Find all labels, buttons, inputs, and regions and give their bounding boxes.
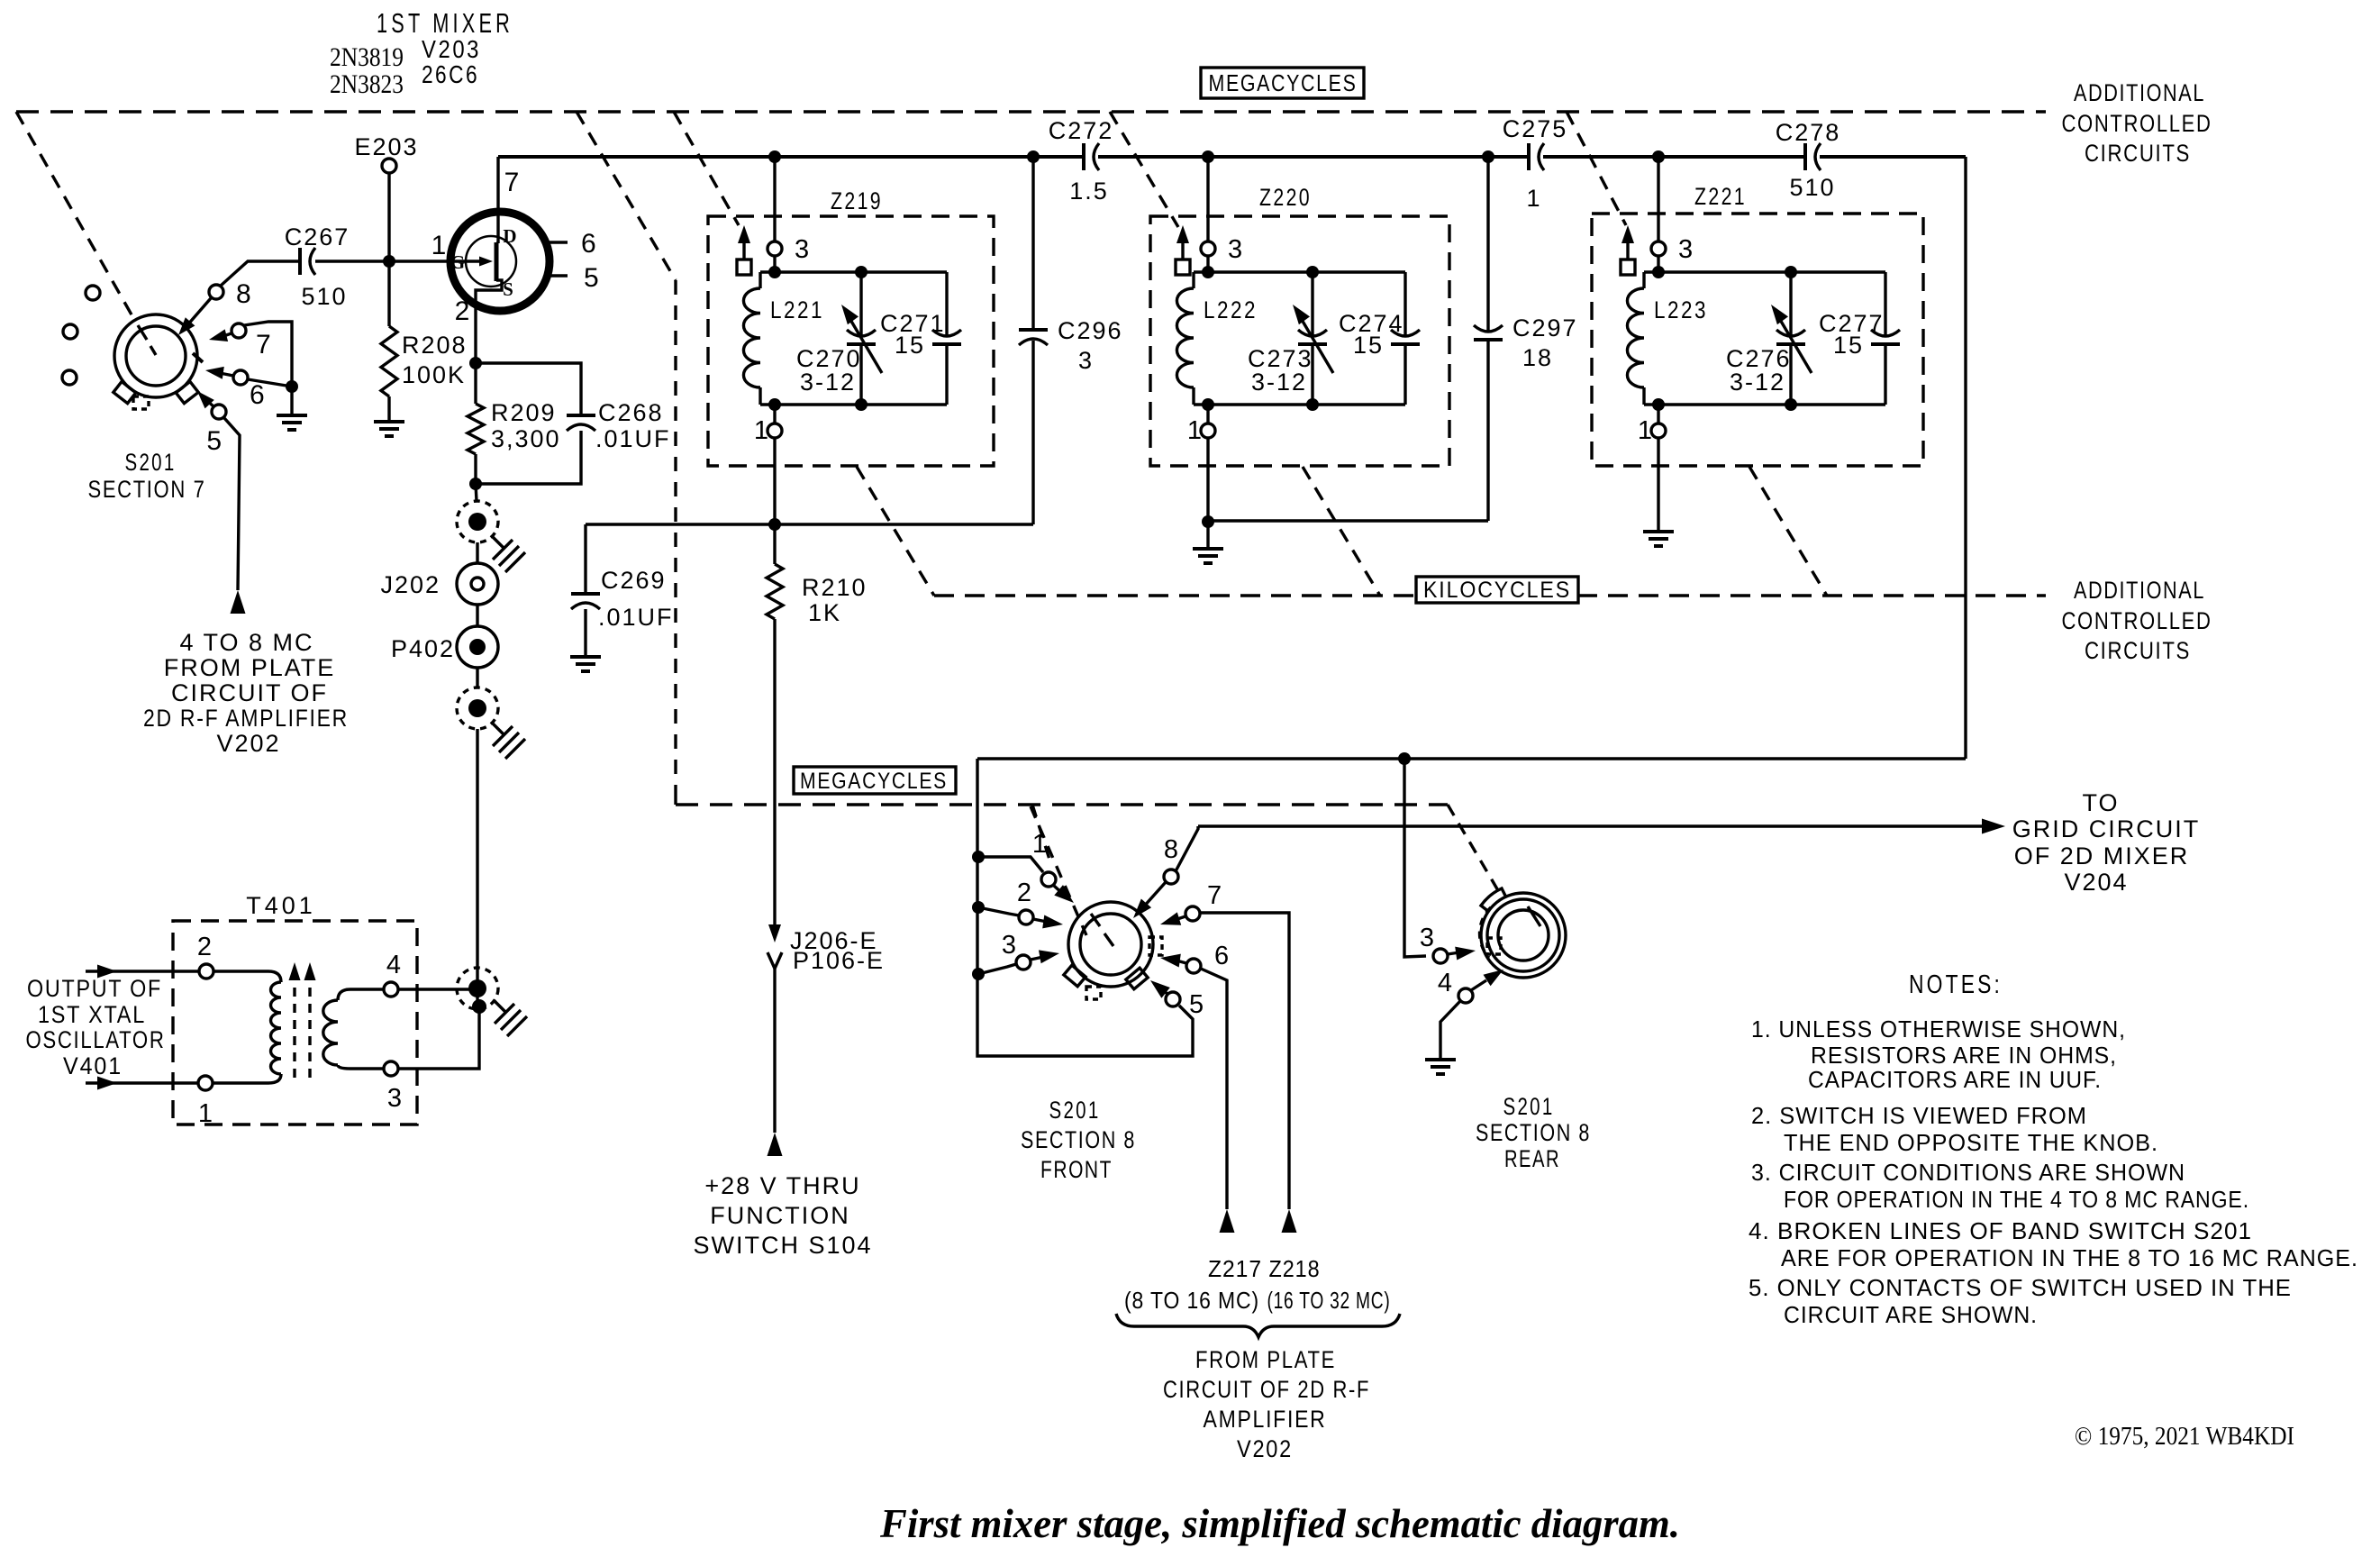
wire E203 to gate node	[387, 173, 390, 261]
svg-text:5: 5	[1189, 990, 1204, 1019]
capacitor C274	[1339, 272, 1420, 405]
label MEGACYCLES (top box)	[1201, 68, 1364, 98]
unused contact (middle)	[63, 324, 77, 339]
svg-text:1K: 1K	[808, 599, 841, 626]
wire Z220 input	[1206, 157, 1209, 241]
svg-text:First mixer stage, simplified: First mixer stage, simplified schematic …	[879, 1500, 1680, 1546]
capacitor C276 (trimmer)	[1726, 272, 1812, 405]
wire contact 7 to Z218	[1200, 913, 1289, 1209]
svg-text:CONTROLLED: CONTROLLED	[2062, 110, 2212, 137]
junction trimmer bottom	[1785, 398, 1797, 411]
node ADDITIONAL CONTROLLED CIRCUITS (top)	[2062, 79, 2212, 167]
node TO GRID CIRCUIT OF 2D MIXER V204	[2012, 789, 2201, 896]
arrow contact 5 to rotor	[197, 391, 214, 408]
svg-text:V202: V202	[216, 730, 280, 757]
pin 3 of Z221	[1651, 235, 1693, 264]
svg-text:3-12: 3-12	[1251, 369, 1307, 396]
svg-text:15: 15	[1833, 332, 1864, 359]
svg-text:4. BROKEN LINES OF BAND SWITCH: 4. BROKEN LINES OF BAND SWITCH S201	[1749, 1217, 2252, 1244]
tube designator V203	[422, 35, 481, 63]
wire Z219 pin1 to rail	[773, 438, 776, 524]
svg-text:3-12: 3-12	[800, 369, 856, 396]
wire dashed 8-16MC position	[1031, 806, 1086, 935]
svg-text:FRONT: FRONT	[1040, 1156, 1113, 1183]
junction bus at Z221	[1652, 150, 1665, 163]
svg-text:1: 1	[754, 416, 768, 445]
svg-text:Z218: Z218	[1269, 1255, 1321, 1282]
feedthrough capacitor below P402	[457, 687, 525, 759]
caption	[879, 1500, 1680, 1546]
svg-text:ADDITIONAL: ADDITIONAL	[2074, 79, 2205, 106]
wire gate node to R208	[387, 261, 390, 326]
wire pin3 to tank	[773, 256, 776, 272]
wire to pin 1	[1657, 405, 1659, 423]
title 1ST MIXER	[377, 7, 513, 39]
junction trimmer top	[1785, 266, 1797, 278]
label S201 SECTION 7	[88, 449, 206, 503]
junction R209 top	[469, 357, 482, 369]
contact 1 of S201-8F	[978, 830, 1056, 887]
capacitor C270 (trimmer)	[796, 272, 882, 405]
note 5	[1749, 1274, 2292, 1328]
svg-text:T401: T401	[246, 892, 316, 919]
pin 3 of Z219	[768, 235, 809, 264]
svg-text:© 1975, 2021 WB4KDI: © 1975, 2021 WB4KDI	[2075, 1423, 2294, 1451]
svg-text:2: 2	[1017, 879, 1031, 907]
svg-text:NOTES:: NOTES:	[1909, 970, 2003, 999]
label KILOCYCLES box	[1416, 577, 1578, 603]
wire Z220 pin1 to ground	[1206, 438, 1209, 522]
junction contact 1 feed	[972, 851, 985, 863]
capacitor C278	[1776, 119, 1841, 201]
svg-text:1: 1	[1526, 185, 1541, 212]
arrow contact 3 to rotor	[1448, 947, 1476, 961]
svg-text:C268: C268	[598, 399, 664, 426]
svg-text:.01UF: .01UF	[598, 604, 674, 631]
svg-text:2: 2	[455, 296, 470, 326]
svg-text:CIRCUIT ARE SHOWN.: CIRCUIT ARE SHOWN.	[1784, 1301, 2038, 1328]
wire to pin 1	[1206, 405, 1209, 423]
svg-text:C267: C267	[285, 223, 350, 250]
wire dashed MEGACYCLES line (lower)	[676, 793, 1448, 805]
svg-text:3,300: 3,300	[491, 425, 561, 452]
label Z217 Z218	[1208, 1255, 1321, 1282]
svg-text:1: 1	[198, 1099, 213, 1128]
pin 1 of Z221	[1638, 416, 1666, 445]
wire dashed diagonal from Z219	[857, 467, 934, 596]
svg-text:P402: P402	[391, 635, 455, 662]
svg-text:CAPACITORS ARE IN UUF.: CAPACITORS ARE IN UUF.	[1808, 1066, 2102, 1093]
junction Z220 ground rail	[1202, 515, 1214, 528]
svg-text:+28 V THRU: +28 V THRU	[704, 1172, 860, 1199]
wire P402 to feedthrough	[476, 668, 478, 687]
wire gate node to FET gate	[389, 259, 468, 262]
junction trimmer bottom	[1306, 398, 1319, 411]
transistor type 2N3819	[330, 42, 404, 72]
wire contact 4 to ground	[1440, 1001, 1460, 1060]
svg-text:S201: S201	[125, 449, 177, 476]
ground below Z221	[1643, 532, 1674, 546]
module Z221 (tuned circuit)	[1592, 183, 1923, 466]
svg-text:SECTION 8: SECTION 8	[1021, 1126, 1136, 1153]
svg-text:V203: V203	[422, 35, 481, 63]
svg-text:1: 1	[431, 231, 447, 260]
capacitor C273 (trimmer)	[1248, 272, 1333, 405]
svg-text:KILOCYCLES: KILOCYCLES	[1423, 578, 1571, 603]
svg-text:FROM PLATE: FROM PLATE	[164, 654, 336, 681]
svg-text:Z220: Z220	[1259, 184, 1312, 211]
wire tank bottom rail	[1194, 403, 1405, 405]
ground below C269	[570, 657, 601, 671]
wire S201-7 contact 8 to C267	[221, 261, 300, 286]
svg-text:1: 1	[1032, 830, 1047, 859]
node Z217 input arrow	[1220, 1209, 1235, 1233]
svg-text:L221: L221	[770, 296, 824, 323]
feedthrough capacitor at T401	[457, 968, 527, 1036]
wire dashed diagonal to Z220 wiper	[1110, 112, 1178, 227]
arrow contact 8 to rotor	[178, 298, 211, 335]
pin 4 of T401	[384, 951, 401, 997]
core arrows of T401	[289, 962, 316, 1078]
svg-text:7: 7	[1207, 881, 1222, 910]
junction bus at Z219	[768, 150, 781, 163]
capacitor C296	[1019, 157, 1123, 524]
contact 7 of S201-8F	[1185, 881, 1222, 921]
svg-text:3: 3	[387, 1084, 402, 1113]
wire FET source to R209 node	[474, 313, 477, 363]
wiper position arrow of Z219	[737, 225, 751, 275]
resistor R209	[468, 363, 561, 484]
wire C267 to gate node	[315, 259, 389, 262]
junction tank top	[1652, 266, 1665, 278]
svg-text:4: 4	[386, 951, 401, 979]
svg-text:REAR: REAR	[1504, 1145, 1560, 1172]
svg-text:1ST XTAL: 1ST XTAL	[38, 1001, 146, 1028]
contact 2 of S201-8F	[978, 879, 1033, 924]
arrow contact 7 to rotor	[209, 329, 232, 341]
wire pin3 to tank	[1657, 256, 1659, 272]
wire contact 5 down to 4-8MC arrow	[224, 418, 240, 590]
svg-text:MEGACYCLES: MEGACYCLES	[1209, 69, 1358, 96]
wire tank top rail	[1194, 270, 1405, 273]
wire Z219 input	[773, 157, 776, 241]
svg-text:C278: C278	[1776, 119, 1841, 146]
svg-text:(16 TO 32 MC): (16 TO 32 MC)	[1267, 1287, 1391, 1314]
svg-text:8: 8	[1164, 835, 1178, 864]
svg-text:L222: L222	[1204, 296, 1258, 323]
wire pin3 to node	[398, 1006, 479, 1069]
unused contact (lower)	[62, 370, 77, 385]
brace under Z217 Z218	[1116, 1314, 1400, 1337]
primary winding of T401	[213, 971, 281, 1083]
svg-text:ARE FOR OPERATION IN THE 8 TO: ARE FOR OPERATION IN THE 8 TO 16 MC RANG…	[1781, 1244, 2358, 1271]
svg-text:15: 15	[1353, 332, 1384, 359]
svg-text:1.5: 1.5	[1069, 178, 1109, 205]
svg-text:E203: E203	[354, 133, 418, 160]
inductor L221	[743, 272, 824, 405]
label 8TO16 16TO32	[1124, 1287, 1391, 1314]
svg-text:ADDITIONAL: ADDITIONAL	[2074, 577, 2205, 604]
wire feedthrough to T401 node	[476, 729, 478, 1006]
wire contact 6 to ground node	[248, 379, 292, 387]
svg-text:4 TO 8 MC: 4 TO 8 MC	[179, 629, 313, 656]
switch S201 section 8 front rotor	[1064, 902, 1162, 999]
connector P402	[391, 626, 498, 668]
svg-text:(8 TO 16 MC): (8 TO 16 MC)	[1124, 1287, 1259, 1314]
junction trimmer top	[855, 266, 868, 278]
wire bus drop to switch rail	[977, 757, 1966, 760]
label NOTES	[1909, 970, 2003, 999]
node +28V THRU FUNCTION SWITCH S104	[768, 1133, 783, 1156]
contact 4 of S201-8R	[1438, 969, 1473, 1003]
svg-text:OF 2D MIXER: OF 2D MIXER	[2014, 842, 2190, 870]
wire oscillator input bottom	[86, 1077, 198, 1090]
svg-text:3: 3	[1420, 924, 1434, 952]
svg-text:GRID CIRCUIT: GRID CIRCUIT	[2012, 815, 2201, 842]
svg-text:5. ONLY CONTACTS OF SWITCH USE: 5. ONLY CONTACTS OF SWITCH USED IN THE	[1749, 1274, 2292, 1301]
svg-text:510: 510	[1789, 174, 1835, 201]
svg-text:Z217: Z217	[1208, 1255, 1262, 1282]
wire dashed diagonal to vertical branch	[577, 112, 676, 793]
capacitor C271	[880, 272, 961, 405]
junction tank bottom	[1202, 398, 1214, 411]
module Z220 (tuned circuit)	[1150, 184, 1449, 466]
svg-text:510: 510	[301, 283, 347, 310]
svg-text:C272: C272	[1049, 117, 1114, 144]
connector J206-E	[768, 924, 878, 954]
terminal E203	[354, 133, 418, 173]
capacitor C297	[1474, 157, 1578, 521]
svg-text:D: D	[503, 225, 516, 247]
svg-text:1. UNLESS OTHERWISE SHOWN,: 1. UNLESS OTHERWISE SHOWN,	[1751, 1015, 2126, 1043]
arrow contact 6 to rotor	[1160, 954, 1186, 968]
wire contact 8 to grid line	[1176, 826, 1198, 871]
wire J202 to P402	[476, 605, 478, 626]
wire main plate bus	[498, 157, 1966, 759]
svg-text:3: 3	[1678, 235, 1693, 264]
ground below S201-8R	[1425, 1060, 1456, 1074]
label MEGACYCLES (lower box)	[794, 767, 956, 794]
wire dashed KILOCYCLES control line	[934, 594, 2046, 596]
svg-text:TO: TO	[2082, 789, 2119, 816]
switch S201 section 7 rotor	[114, 314, 203, 409]
junction tank top	[1202, 266, 1214, 278]
arrow contact 6 to rotor	[205, 367, 233, 379]
wire R209 bottom to feedthrough	[476, 484, 477, 501]
tube type 26C6	[422, 60, 479, 88]
svg-text:C269: C269	[601, 567, 667, 594]
svg-text:3: 3	[1002, 931, 1016, 960]
arrow contact 8 to rotor	[1133, 882, 1166, 918]
svg-text:2N3823: 2N3823	[330, 69, 404, 99]
transformer T401 module	[173, 892, 417, 1124]
note 4	[1749, 1217, 2358, 1271]
svg-text:6: 6	[1214, 942, 1229, 970]
wire Z220 junction to ground	[1206, 522, 1209, 549]
contact 5 of S201-8F	[1166, 990, 1204, 1019]
arrow contact 1 to rotor	[1054, 885, 1074, 903]
svg-text:RESISTORS ARE IN OHMS,: RESISTORS ARE IN OHMS,	[1811, 1042, 2117, 1069]
svg-text:SWITCH S104: SWITCH S104	[693, 1232, 872, 1259]
resistor R208	[381, 326, 468, 396]
svg-text:MEGACYCLES: MEGACYCLES	[800, 769, 948, 794]
svg-text:Z221: Z221	[1694, 183, 1747, 210]
svg-text:AMPLIFIER: AMPLIFIER	[1204, 1406, 1327, 1433]
junction bus at C296	[1027, 150, 1040, 163]
wire tank top rail	[1644, 270, 1885, 273]
wire R210 to J206-E	[773, 619, 776, 927]
junction R209 bottom	[469, 478, 482, 490]
wire oscillator input top	[86, 965, 199, 979]
junction trimmer top	[1306, 266, 1319, 278]
inductor L223	[1627, 272, 1708, 405]
svg-text:R209: R209	[491, 399, 557, 426]
svg-text:OUTPUT OF: OUTPUT OF	[27, 975, 162, 1002]
svg-text:.01UF: .01UF	[595, 425, 671, 452]
svg-text:CIRCUIT OF 2D R-F: CIRCUIT OF 2D R-F	[1163, 1376, 1370, 1403]
svg-text:G: G	[450, 251, 465, 273]
capacitor C275	[1503, 115, 1568, 212]
svg-text:FUNCTION: FUNCTION	[710, 1202, 849, 1229]
wire tank top rail	[760, 270, 947, 273]
wire P106-E to +28V arrow	[773, 969, 776, 1133]
svg-text:1ST MIXER: 1ST MIXER	[377, 7, 513, 39]
wire bypass rail	[586, 523, 1033, 525]
junction contact 3 feed	[972, 968, 985, 980]
node Z218 input arrow	[1282, 1209, 1297, 1233]
note 3	[1751, 1159, 2249, 1213]
svg-text:3-12: 3-12	[1730, 369, 1785, 396]
resistor R210	[767, 524, 868, 626]
junction at rear switch drop	[1398, 752, 1411, 765]
pin 2 of T401	[197, 933, 213, 979]
contact 6 of S201-8F	[1186, 942, 1229, 973]
connector P106-E	[768, 947, 885, 974]
wire tank bottom rail	[1644, 403, 1885, 405]
wire rear switch drop	[1404, 759, 1426, 957]
svg-text:SECTION 7: SECTION 7	[88, 476, 206, 503]
svg-text:SECTION 8: SECTION 8	[1476, 1119, 1591, 1146]
wire dashed diagonal to S201 section 7 rotor	[16, 112, 132, 316]
svg-text:FROM PLATE: FROM PLATE	[1195, 1346, 1336, 1373]
capacitor C277	[1819, 272, 1900, 405]
svg-text:S201: S201	[1049, 1097, 1101, 1124]
label copyright	[2075, 1423, 2294, 1451]
arrow contact 5 to rotor	[1150, 980, 1170, 998]
secondary winding of T401	[323, 989, 398, 1069]
label S201 SECTION 8 REAR	[1476, 1093, 1591, 1172]
wire C297 to Z220 ground rail	[1208, 519, 1488, 522]
junction rail at R210	[768, 518, 781, 531]
contact 8 of S201-8F	[1164, 835, 1178, 884]
feedthrough capacitor above J202	[457, 501, 525, 572]
arrow contact 7 to rotor	[1160, 912, 1185, 924]
wire C268 bottom to R209 bottom	[476, 431, 581, 484]
svg-text:3: 3	[795, 235, 809, 264]
svg-text:3. CIRCUIT CONDITIONS ARE SHOW: 3. CIRCUIT CONDITIONS ARE SHOWN	[1751, 1159, 2185, 1186]
wire pin3 to tank	[1206, 256, 1209, 272]
wire to grid of 2nd mixer	[1198, 819, 2005, 834]
capacitor C268	[567, 399, 671, 452]
switch S201 section 8 rear rotor	[1480, 888, 1566, 978]
ground below R208	[374, 422, 404, 436]
wire S201-8 front frame	[977, 759, 1193, 1056]
capacitor C272	[1049, 117, 1114, 205]
module Z219 (tuned circuit)	[708, 187, 994, 466]
wiper position arrow of Z220	[1176, 225, 1190, 275]
transistor type 2N3823	[330, 69, 404, 99]
svg-text:THE END OPPOSITE THE KNOB.: THE END OPPOSITE THE KNOB.	[1784, 1129, 2158, 1156]
svg-text:6: 6	[250, 380, 265, 410]
wire dashed diagonal to Z221 wiper	[1567, 112, 1626, 225]
arrow contact 4 to rotor	[1471, 970, 1503, 990]
label S201 SECTION 8 FRONT	[1021, 1097, 1136, 1183]
svg-text:8: 8	[236, 279, 251, 309]
pin 3 of T401	[384, 1061, 402, 1113]
svg-text:1: 1	[1638, 416, 1652, 445]
svg-text:2N3819: 2N3819	[330, 42, 404, 72]
svg-text:CIRCUITS: CIRCUITS	[2085, 637, 2191, 664]
svg-text:S201: S201	[1503, 1093, 1555, 1120]
junction bus at C297	[1482, 150, 1494, 163]
contact 8 of S201-7	[209, 279, 251, 309]
svg-text:CONTROLLED: CONTROLLED	[2062, 607, 2212, 634]
svg-text:5: 5	[584, 263, 599, 293]
inductor L222	[1176, 272, 1258, 405]
junction pin3 wire	[472, 999, 486, 1014]
wire junction to ground	[290, 387, 293, 415]
capacitor C269	[571, 524, 674, 657]
unused contact (upper)	[86, 286, 100, 300]
svg-text:26C6: 26C6	[422, 60, 479, 88]
contact 7 of S201-7	[232, 323, 271, 360]
svg-text:7: 7	[256, 330, 271, 360]
note 1	[1751, 1015, 2126, 1093]
contact 3 of S201-8F	[978, 931, 1031, 974]
contact 6 of S201-7	[233, 370, 265, 410]
svg-text:7: 7	[504, 168, 520, 197]
node FROM PLATE CIRCUIT OF 2D R-F AMPLIFIER V202	[1163, 1346, 1370, 1462]
svg-text:FOR OPERATION IN THE 4 TO 8 MC: FOR OPERATION IN THE 4 TO 8 MC RANGE.	[1784, 1186, 2249, 1213]
arrow contact 3 to rotor	[1031, 950, 1059, 963]
junction gate node	[383, 255, 395, 268]
svg-text:5: 5	[206, 426, 222, 456]
svg-text:P106-E: P106-E	[793, 947, 885, 974]
wire dashed MEGACYCLES control line (top)	[16, 110, 2046, 113]
svg-text:Z219: Z219	[831, 187, 883, 214]
wire dashed diagonal to S201-8 front rotor	[1032, 805, 1050, 862]
svg-text:C297: C297	[1512, 314, 1578, 341]
junction contact 2 feed	[972, 901, 985, 914]
wire dashed diagonal to Z219 wiper	[674, 112, 739, 225]
svg-text:CIRCUITS: CIRCUITS	[2085, 140, 2191, 167]
svg-text:C275: C275	[1503, 115, 1568, 142]
svg-text:3: 3	[1078, 347, 1094, 374]
wire R209 top to C268	[476, 363, 581, 415]
contact 3 of S201-8R	[1420, 924, 1448, 963]
junction tank bottom	[768, 398, 781, 411]
wire dashed diagonal from Z220	[1303, 467, 1380, 596]
svg-text:15: 15	[895, 332, 925, 359]
wire Z221 input	[1657, 157, 1659, 241]
wire Z221 pin1 to ground	[1657, 438, 1659, 532]
node ADDITIONAL CONTROLLED CIRCUITS (bottom)	[2062, 577, 2212, 664]
svg-text:V202: V202	[1237, 1435, 1293, 1462]
junction contacts 6-7	[286, 380, 298, 393]
wire contact 7 to ground node	[244, 322, 292, 387]
transistor V203 (FET 1st mixer)	[431, 157, 599, 326]
note 2	[1751, 1102, 2158, 1156]
